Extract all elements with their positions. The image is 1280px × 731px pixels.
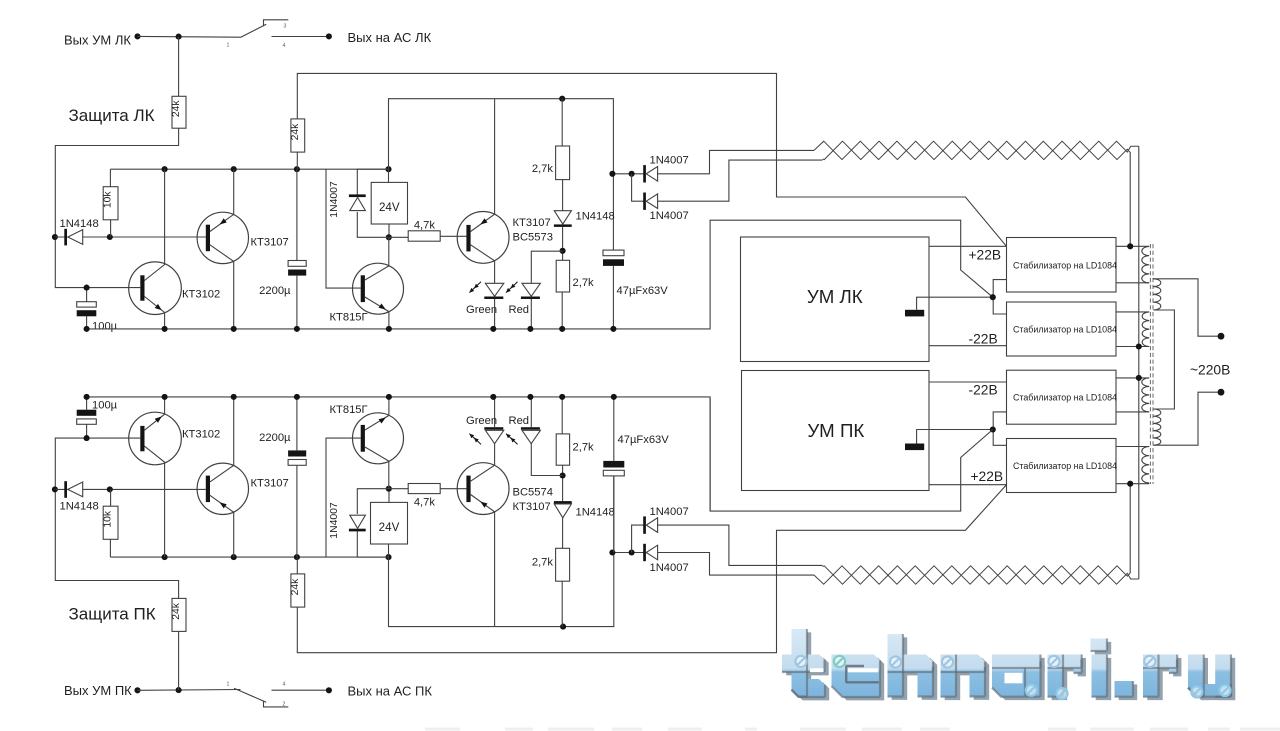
- wire: D7 branch: [632, 174, 645, 201]
- wire: top bus of protection R down to -22V path: [87, 397, 711, 511]
- capacitor C1 100u plate (top): [77, 302, 97, 307]
- wire: D14 branch: [632, 525, 645, 552]
- svg-text:УМ ЛК: УМ ЛК: [807, 286, 863, 307]
- svg-text:КТ3102: КТ3102: [182, 289, 220, 301]
- ground bar inside УМ ЛК: [905, 310, 924, 317]
- svg-text:10k: 10k: [103, 510, 114, 527]
- transistor Q6 KT3107 circle: [197, 463, 248, 514]
- diode D3 1N4148 triangle: [554, 211, 571, 224]
- capacitor C6 47uF plate (bottom): [603, 470, 624, 476]
- watermark tehnari.ru letters: [792, 629, 808, 697]
- LED D12 Red cathode bar: [521, 427, 540, 430]
- diode D1 1N4148 cathode bar: [64, 229, 67, 246]
- amplifier module box УМ ЛК: [741, 237, 930, 362]
- node: W1 top junction: [1127, 243, 1133, 249]
- wire: node to R7 bottom: [178, 631, 180, 690]
- wire: long right vertical (common): [1138, 146, 1140, 579]
- svg-text:1: 1: [227, 43, 230, 49]
- wire: center-tap bracket U4/U5: [993, 412, 1006, 445]
- wire: U3 to winding W2 top: [1116, 311, 1149, 313]
- wire: C6 top stem: [613, 397, 615, 461]
- svg-text:Стабилизатор на LD1084: Стабилизатор на LD1084: [1013, 324, 1117, 334]
- node: D1/R2 junction: [107, 234, 113, 240]
- wire: D13 cathode to lower zigzag entry: [656, 553, 814, 576]
- node: junction to R7 24k: [176, 687, 182, 693]
- node: bus/KT3107 emitter: [231, 166, 237, 172]
- LED D11 Green cathode bar: [484, 427, 503, 430]
- wire: primary bottom terminal: [1153, 392, 1218, 445]
- resistor R10 4,7k (horizontal): [408, 484, 440, 494]
- transistor Q7 base bar: [361, 425, 365, 452]
- svg-text:10k: 10k: [103, 191, 114, 208]
- diode D7 1N4007: [643, 193, 646, 210]
- node: junction to R1 24k: [176, 34, 182, 40]
- wire: Вых УМ ПК to relay contact 2: [138, 689, 241, 692]
- wire: D3 to node: [562, 227, 564, 260]
- node: rail junction with D8: [52, 486, 58, 492]
- thermal fuse chain FU2 (lower zigzag) wave A: [814, 566, 1139, 584]
- svg-text:1N4148: 1N4148: [576, 507, 615, 519]
- svg-text:24k: 24k: [171, 602, 182, 619]
- svg-text:КТ3107: КТ3107: [513, 501, 551, 513]
- svg-text:Защита ЛК: Защита ЛК: [69, 106, 155, 125]
- svg-text:1: 1: [227, 681, 230, 687]
- wire: U5 to winding W4 top: [1116, 446, 1149, 448]
- thermal fuse chain FU1 (upper zigzag) wave A: [814, 141, 1139, 159]
- wire: W3 bottom to U4: [1116, 411, 1149, 413]
- diode D14 1N4007: [643, 516, 646, 533]
- wire: R9 top to lower bus: [296, 557, 298, 574]
- transistor Q8 base bar: [466, 476, 470, 503]
- transformer winding W3: [1142, 378, 1149, 412]
- wire: УМ ПК ground stem: [917, 430, 994, 444]
- wire: D7 cathode to zigzag lower entry: [656, 160, 823, 201]
- wire: D12 top stem: [530, 397, 532, 427]
- transistor Q2 base bar: [206, 225, 210, 252]
- wire: C5 stems: [296, 397, 298, 557]
- relay contact K1.1 (fixed contact wire): [272, 36, 329, 38]
- thermal fuse chain FU2 wave B: [823, 566, 1131, 584]
- diode D3 1N4148 cathode bar: [554, 224, 572, 227]
- LED D12 Red triangle: [522, 430, 540, 443]
- transformer winding W4: [1142, 447, 1149, 483]
- svg-text:~220В: ~220В: [1190, 363, 1230, 378]
- transistor Q3 base bar: [361, 275, 365, 302]
- svg-text:2200µ: 2200µ: [259, 432, 291, 444]
- svg-text:КТ3102: КТ3102: [182, 429, 220, 441]
- wire: W1 bottom to U2: [1116, 282, 1149, 284]
- transistor Q3 collector: [365, 237, 389, 280]
- svg-text:Green: Green: [466, 415, 497, 427]
- diode D8 1N4148 triangle: [68, 482, 83, 497]
- thermal fuse chain FU1 wave B: [823, 141, 1131, 159]
- svg-text:Стабилизатор на LD1084: Стабилизатор на LD1084: [1013, 260, 1117, 270]
- relay contact K1.2 (movable arm): [234, 688, 266, 702]
- svg-text:1N4007: 1N4007: [329, 181, 340, 218]
- transistor Q6 base bar: [206, 476, 210, 503]
- relay contact K1.1 (upper stop): [264, 20, 289, 26]
- transistor Q1 emitter arrow: [155, 304, 162, 310]
- wire: +22V from УМ ПК to U5: [929, 484, 1007, 486]
- resistor R4 4,7k (horizontal): [408, 231, 440, 241]
- transistor Q3 emitter: [365, 297, 389, 329]
- node: link/R5 junction: [559, 96, 565, 102]
- svg-text:УМ ПК: УМ ПК: [807, 420, 864, 441]
- node: bus dots (top bus R): [84, 394, 90, 400]
- transistor Q3 emitter arrow: [379, 304, 386, 310]
- wire: diode D1 row: [55, 236, 206, 238]
- wire: +22V from УМ ЛК to U2: [929, 245, 1007, 247]
- resistor R8 10k (vertical): [103, 506, 118, 539]
- wire: -22V from УМ ЛК to U3: [929, 345, 1007, 347]
- capacitor C1 100u plate (bottom): [77, 310, 97, 316]
- relay contact K1.2 (fixed contact wire): [272, 689, 329, 691]
- svg-text:КТ815Г: КТ815Г: [330, 404, 368, 416]
- svg-text:КТ3107: КТ3107: [251, 477, 289, 489]
- wire: D11 top stem: [494, 397, 496, 427]
- node: C1 top junction: [84, 285, 90, 291]
- node: D13 junction b: [629, 549, 635, 555]
- svg-text:100µ: 100µ: [92, 400, 118, 412]
- svg-text:BC5574: BC5574: [513, 486, 553, 498]
- wire: C6 column down: [613, 476, 615, 553]
- wire: top bus to R2 10k: [109, 169, 111, 187]
- transistor Q5 KT3102 circle: [129, 412, 182, 465]
- wire: node to R1 top: [178, 37, 180, 97]
- wire: D5 bottom stem: [530, 299, 532, 329]
- transistor Q1 base bar: [140, 275, 144, 300]
- transistor Q2 KT3107 circle: [197, 212, 248, 263]
- node: bus/24V junction: [385, 166, 391, 172]
- svg-text:24k: 24k: [290, 123, 301, 140]
- wire: D4 bottom stem: [494, 299, 496, 329]
- node: rail junction with D1: [52, 234, 58, 240]
- zener block U1 24V box: [371, 182, 407, 224]
- transformer winding W2: [1142, 312, 1149, 347]
- transformer core (dashed): [1150, 244, 1153, 484]
- wire: diode D8 row: [55, 488, 206, 490]
- wire: D9 branch (bottom and top): [357, 489, 408, 557]
- wire: R11 top to D10: [562, 518, 564, 549]
- svg-text:Стабилизатор на LD1084: Стабилизатор на LD1084: [1013, 393, 1117, 403]
- svg-text:КТ3107: КТ3107: [251, 236, 289, 248]
- diode D2 1N4007 cathode bar: [349, 194, 366, 197]
- node: D3/R6/LED junction: [560, 248, 566, 254]
- node: U1 bottom junction: [386, 234, 392, 240]
- wire: R11 bottom stem: [561, 581, 563, 626]
- resistor R9 24k (vertical): [291, 574, 305, 607]
- svg-text:BC5573: BC5573: [513, 232, 553, 244]
- wire: C1 stems: [86, 288, 88, 329]
- wire: R4 to Q4 base: [440, 235, 466, 237]
- transistor Q4 KT3107/BC5573 circle: [457, 212, 509, 264]
- watermark bevel edges: [792, 629, 808, 697]
- wire: D10 to node: [562, 465, 564, 501]
- transistor Q8 KT3107/BC5574 circle: [457, 463, 509, 515]
- node: output terminal L: [134, 33, 140, 39]
- node: center tap R: [990, 426, 996, 432]
- svg-text:Вых УМ ЛК: Вых УМ ЛК: [64, 33, 131, 48]
- wire: center-tap bracket U2/U3: [993, 280, 1006, 314]
- wire: R5 top stem: [561, 99, 563, 146]
- diode D1 1N4148 triangle: [68, 230, 83, 245]
- svg-text:1N4148: 1N4148: [576, 211, 615, 223]
- svg-text:47µFx63V: 47µFx63V: [617, 285, 669, 297]
- node: bus/C2 2200u: [294, 166, 300, 172]
- ground bar inside УМ ПК: [905, 444, 924, 451]
- transformer primary winding P1 (upper): [1153, 279, 1160, 310]
- svg-text:1N4007: 1N4007: [329, 502, 340, 539]
- transistor Q2 emitter: [210, 169, 234, 231]
- resistor R5 2,7k (vertical): [556, 146, 570, 180]
- watermark letter e slit: [848, 668, 879, 672]
- node: mains terminal 1: [1218, 333, 1225, 340]
- svg-text:100µ: 100µ: [92, 321, 118, 333]
- wire: U4 to winding W3 top / common: [1116, 377, 1149, 379]
- wire: zigzag right vertical to transformer node: [1129, 152, 1131, 246]
- node: D6 junction b: [629, 171, 635, 177]
- svg-text:4,7k: 4,7k: [414, 497, 436, 509]
- node: output terminal R: [134, 687, 140, 693]
- svg-text:24V: 24V: [379, 521, 400, 534]
- capacitor C3 47uF plate (top): [603, 250, 624, 256]
- svg-text:4: 4: [283, 43, 286, 49]
- LED D12 arrows: [511, 438, 518, 445]
- wire: R8 top to D8 row: [110, 489, 112, 506]
- resistor R6 2,7k (vertical): [556, 260, 569, 292]
- relay contact K1.2 (lower stop): [264, 701, 289, 707]
- wire: R6 bottom to bus: [561, 292, 563, 329]
- svg-text:Вых на АС ЛК: Вых на АС ЛК: [348, 30, 432, 45]
- svg-text:Green: Green: [466, 304, 497, 316]
- stabilizer box U2: [1007, 238, 1117, 293]
- node: U6 top junction: [386, 486, 392, 492]
- LED D4 arrows: [474, 282, 481, 289]
- svg-text:1N4007: 1N4007: [650, 506, 689, 518]
- diode D9 1N4007 triangle: [350, 515, 366, 528]
- node: bus2/KT3102-2 emitter: [162, 554, 168, 560]
- svg-text:2200µ: 2200µ: [259, 285, 291, 297]
- svg-text:Защита ПК: Защита ПК: [69, 604, 156, 623]
- wire: W4 bottom to U5: [1116, 483, 1149, 485]
- diode D2 1N4007 triangle: [350, 197, 366, 210]
- svg-text:КТ3107: КТ3107: [513, 217, 551, 229]
- node: D10/R12/LED junction: [560, 472, 566, 478]
- transistor Q8 collector: [471, 443, 495, 481]
- wire: top supply bus (left half): [110, 168, 388, 170]
- amplifier module box УМ ПК: [742, 371, 930, 491]
- wire: C4 stems: [86, 397, 88, 438]
- wire: primary interconnect: [1153, 310, 1174, 409]
- watermark tehnari.ru shadow: [796, 632, 812, 700]
- wire: bottom bus to R8 10k: [109, 539, 111, 557]
- wire: R3 24k top rail (to right loop): [297, 73, 1006, 246]
- stabilizer box U5: [1007, 439, 1117, 493]
- svg-text:2,7k: 2,7k: [532, 557, 554, 569]
- svg-text:1N4007: 1N4007: [650, 562, 689, 574]
- resistor R12 2,7k (vertical): [556, 434, 569, 465]
- node: Вых на АС ПК terminal: [326, 687, 332, 693]
- wire: U1 bottom to node: [388, 224, 390, 237]
- transistor Q4 emitter arrow: [480, 218, 487, 224]
- node: Вых на АС ЛК terminal: [326, 33, 332, 39]
- transistor Q6 emitter arrow: [220, 502, 227, 508]
- svg-text:+22В: +22В: [969, 248, 1002, 263]
- capacitor C2 2200u plate (top): [288, 261, 306, 267]
- svg-text:24k: 24k: [171, 100, 182, 117]
- transistor Q5 emitter arrow: [155, 416, 162, 422]
- resistor R1 24k (vertical): [172, 96, 186, 128]
- wire: lower supply bus (left half, ch R): [110, 556, 388, 558]
- transistor Q4 base bar: [466, 225, 470, 252]
- transistor Q4 collector: [471, 245, 495, 283]
- transistor Q8 emitter arrow: [480, 502, 487, 508]
- wire: D13 anode row: [612, 552, 644, 554]
- wire: R10 to Q8 base: [440, 488, 466, 490]
- watermark letter t slit: [810, 668, 824, 672]
- svg-text:2,7k: 2,7k: [532, 163, 554, 175]
- wire: primary top terminal: [1153, 279, 1218, 336]
- node: bus dots (bottom bus L): [84, 326, 90, 332]
- node: link2/R12 junction: [560, 624, 566, 630]
- diode D10 1N4148 triangle: [554, 504, 571, 518]
- wire: lower zigzag right vertical to transformer node: [1129, 484, 1131, 573]
- transistor Q5 emitter: [145, 397, 165, 430]
- svg-text:Вых УМ ПК: Вых УМ ПК: [64, 683, 132, 698]
- wire: U2 out to winding W1 top: [1116, 245, 1149, 247]
- node: W3/common junction: [1136, 375, 1142, 381]
- LED D5 Red cathode bar: [521, 297, 540, 300]
- wire: red LED 2 branch: [531, 443, 562, 476]
- svg-text:24V: 24V: [379, 201, 400, 214]
- transistor Q8 emitter: [471, 495, 495, 627]
- transistor Q1 KT3102 circle: [129, 262, 182, 315]
- svg-text:Стабилизатор на LD1084: Стабилизатор на LD1084: [1013, 461, 1117, 471]
- wire: R3 bottom to top bus: [296, 152, 298, 169]
- wire: УМ ЛК ground stem: [917, 297, 994, 310]
- wire: lower bus branch up to KT815G-2 base: [326, 438, 361, 557]
- node: W4 bottom junction: [1127, 481, 1133, 487]
- transistor Q1 collector: [145, 169, 165, 280]
- wire: bottom bus of protection L up to -22V path: [87, 220, 993, 329]
- watermark slashed-circle marks: [795, 656, 806, 667]
- LED D5 Red triangle: [522, 283, 540, 296]
- transistor Q2 collector: [210, 245, 234, 329]
- wire: R5 bottom to D3: [562, 180, 564, 211]
- svg-text:4: 4: [283, 682, 286, 688]
- watermark letter a counter: [1005, 673, 1023, 684]
- transistor Q1 emitter: [145, 297, 165, 329]
- wire: 24V stem up and top link to C3 column: [389, 99, 614, 250]
- cropped text row at bottom edge: [425, 728, 460, 731]
- svg-text:24k: 24k: [290, 578, 301, 595]
- node: W2/common junction: [1136, 343, 1142, 349]
- wire: C3 bottom stem: [612, 266, 614, 329]
- node: bus2/C5 2200u: [294, 554, 300, 560]
- node: D8/R8 junction: [107, 486, 113, 492]
- wire: R7 top to left rail up to KT3102-2 base row: [55, 438, 178, 598]
- transistor Q5 base bar: [140, 426, 144, 451]
- svg-text:-22В: -22В: [969, 383, 998, 398]
- node: bus/KT3102 collector: [162, 166, 168, 172]
- svg-text:47µFx63V: 47µFx63V: [618, 434, 670, 446]
- transistor Q6 collector: [210, 397, 234, 482]
- capacitor C6 47uF plate (top): [603, 461, 624, 468]
- wire: -22V rail diagonal (bottom half): [710, 398, 993, 511]
- transistor Q7 emitter: [365, 397, 389, 430]
- LED D5 arrows: [511, 282, 518, 289]
- wire: top bus branch down to KT815G base: [326, 169, 361, 288]
- wire: W2 bottom to U3 and common: [1116, 346, 1149, 348]
- capacitor C2 2200u plate (bottom): [288, 270, 306, 276]
- resistor R3 24k (vertical): [291, 119, 305, 152]
- wire: D6 anode row: [612, 173, 644, 175]
- transformer winding W1: [1142, 247, 1149, 283]
- svg-text:Вых на АС ПК: Вых на АС ПК: [348, 683, 433, 698]
- wire: bottom rail to U5 diagonal: [297, 485, 1006, 653]
- node: D6 junction a: [609, 171, 615, 177]
- svg-text:2,7k: 2,7k: [573, 441, 595, 453]
- wire: R1 bottom to left rail down to KT3102 base row: [55, 128, 178, 287]
- LED D4 Green cathode bar: [484, 297, 503, 300]
- node: bus2/KT3107-2 emitter: [231, 554, 237, 560]
- capacitor C4 100u plate (bottom): [77, 419, 97, 424]
- node: mains terminal 2: [1218, 389, 1225, 396]
- svg-text:4,7k: 4,7k: [414, 219, 436, 231]
- transistor Q5 collector: [145, 446, 165, 557]
- resistor R11 2,7k (vertical): [556, 548, 570, 581]
- capacitor C5 2200u plate (top): [288, 450, 306, 456]
- wire: R12 top to bus: [561, 397, 563, 434]
- svg-text:Red: Red: [509, 415, 530, 427]
- watermark letter e inner mark: [846, 666, 879, 683]
- zener block U6 24V box: [371, 502, 408, 544]
- transistor Q2 emitter arrow: [220, 218, 227, 224]
- diode D9 1N4007 cathode bar: [349, 529, 366, 532]
- wire: D6 cathode to zigzag top entry: [656, 150, 814, 173]
- svg-text:+22В: +22В: [971, 469, 1004, 484]
- LED D11 Green triangle: [485, 430, 503, 443]
- svg-text:Red: Red: [509, 304, 530, 316]
- svg-text:2,7k: 2,7k: [573, 277, 595, 289]
- resistor R7 24k (vertical): [172, 598, 186, 631]
- diode D13 1N4007: [643, 544, 646, 561]
- wire: 24V-2 stem down and link to C6 column: [389, 476, 614, 627]
- transistor Q6 emitter: [210, 495, 234, 557]
- svg-text:КТ815Г: КТ815Г: [330, 312, 368, 324]
- capacitor C4 100u plate (top): [77, 410, 97, 416]
- transistor Q7 collector: [365, 447, 389, 489]
- node: D13 junction a: [609, 549, 615, 555]
- node: C4 bottom junction: [84, 435, 90, 441]
- wire: U6 top to node: [388, 489, 390, 503]
- transistor Q7 emitter arrow: [379, 417, 386, 423]
- svg-text:2: 2: [283, 701, 286, 707]
- transistor Q4 emitter: [471, 99, 495, 232]
- svg-text:-22В: -22В: [969, 332, 998, 347]
- svg-text:1N4148: 1N4148: [60, 218, 99, 230]
- wire: red LED branch: [531, 251, 562, 283]
- svg-text:1N4148: 1N4148: [60, 501, 99, 513]
- wire: Вых УМ ЛК to relay contact: [138, 35, 241, 38]
- transformer primary winding P2 (lower): [1153, 409, 1160, 445]
- wire: -22V from УМ ПК to U4: [929, 381, 1007, 383]
- LED D11 arrows: [474, 438, 481, 445]
- transistor Q7 KT815G circle: [353, 413, 404, 464]
- resistor R2 10k (vertical): [103, 187, 118, 220]
- node: bus2/24V junction: [385, 554, 391, 560]
- wire: C2 stems: [296, 169, 298, 329]
